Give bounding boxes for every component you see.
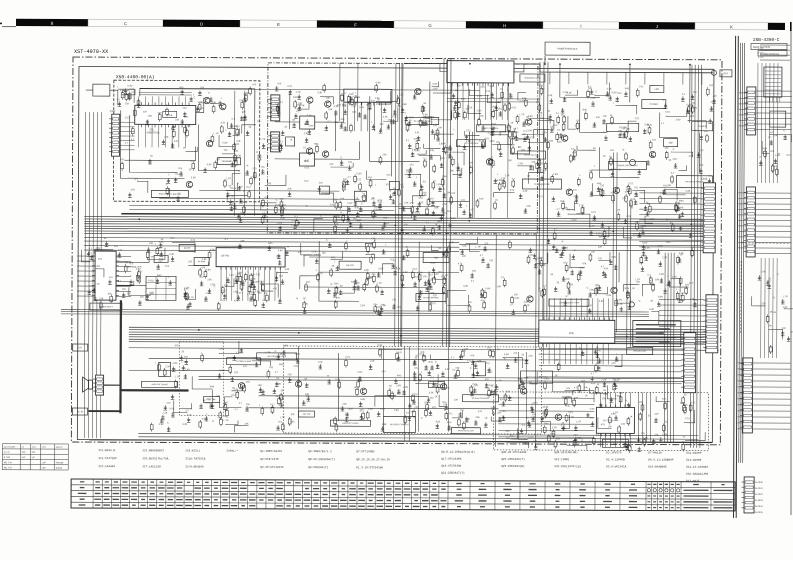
RC cluster below IC6: [544, 346, 622, 406]
svg-text:22K: 22K: [566, 396, 571, 399]
svg-text:IC9:KC5LL: IC9:KC5LL: [185, 449, 200, 452]
top right wiring 7: [580, 102, 607, 132]
svg-text:0.8V: 0.8V: [359, 106, 364, 109]
svg-text:C: C: [470, 367, 472, 370]
svg-text:47K: 47K: [236, 140, 241, 143]
if amp label box: [227, 358, 261, 365]
svg-text:0.01: 0.01: [488, 370, 493, 373]
bus junction dots upper: [138, 218, 692, 232]
svg-text:220: 220: [608, 425, 613, 428]
svg-text:R: R: [296, 297, 298, 300]
second sheet right edge line: [790, 31, 792, 515]
lower transformer box: [159, 362, 171, 376]
svg-text:1K: 1K: [630, 415, 633, 418]
top right wiring 10: [699, 133, 701, 173]
svg-text:0.01: 0.01: [685, 417, 690, 420]
connector CN5 upper: [268, 95, 280, 121]
svg-text:C12: C12: [510, 189, 515, 192]
PLL top wire row: [139, 92, 192, 95]
second sheet bottom connector: [742, 477, 755, 513]
svg-text:R45: R45: [268, 242, 273, 245]
svg-text:220: 220: [188, 260, 193, 263]
svg-text:47K: 47K: [614, 190, 619, 193]
top right wiring 4: [468, 132, 470, 217]
node circle right: [711, 70, 716, 75]
svg-text:10u: 10u: [178, 167, 183, 170]
semiconductor reference list: [98, 448, 708, 483]
svg-text:100: 100: [348, 161, 353, 164]
svg-text:AD HOUSE: AD HOUSE: [4, 446, 16, 449]
svg-text:3.3K: 3.3K: [643, 437, 648, 440]
IC2 lower wire row: [447, 99, 540, 102]
svg-text:1K: 1K: [603, 155, 606, 158]
fm detector box: [518, 151, 546, 159]
frequency range table: [146, 276, 176, 300]
svg-text:2.8V: 2.8V: [185, 368, 190, 371]
svg-text:0.8V: 0.8V: [357, 172, 362, 175]
svg-text:100: 100: [709, 84, 714, 87]
svg-text:100: 100: [257, 292, 262, 295]
svg-text:25B-4390-C: 25B-4390-C: [753, 38, 780, 43]
svg-text:R45: R45: [493, 106, 498, 109]
svg-text:TEMPERATURE: TEMPERATURE: [534, 183, 550, 186]
main data bus (upper): [84, 217, 705, 237]
transistor Q11: [561, 135, 567, 141]
svg-text:R45: R45: [409, 116, 414, 119]
svg-text:470: 470: [269, 366, 274, 369]
svg-text:L.TP: L.TP: [576, 420, 581, 423]
second sheet edge stubs mid: [738, 193, 746, 248]
top right wiring 8: [599, 147, 639, 177]
sd gb control box: [416, 293, 446, 301]
RC cluster center band: [296, 237, 454, 316]
svg-text:220: 220: [216, 395, 221, 398]
svg-text:47K: 47K: [413, 138, 418, 141]
svg-text:B: B: [51, 21, 54, 26]
svg-text:47K: 47K: [411, 399, 416, 402]
svg-text:0.8V: 0.8V: [283, 344, 288, 347]
RC cluster temp comp area: [547, 189, 697, 246]
svg-text:47K: 47K: [445, 387, 450, 390]
svg-text:0.01: 0.01: [221, 121, 226, 124]
svg-text:2.8V: 2.8V: [206, 268, 211, 271]
svg-text:220: 220: [484, 242, 489, 245]
svg-text:0.8V: 0.8V: [207, 163, 212, 166]
svg-text:B-4933: B-4933: [755, 499, 763, 502]
film edge ruler bar with grid letters B-K: [16, 19, 785, 30]
power wire bend: [104, 384, 121, 386]
svg-text:22K: 22K: [125, 102, 130, 105]
RC cluster mid band extra: [81, 237, 468, 314]
mixer box 2 (+K): [300, 153, 315, 166]
svg-text:100: 100: [650, 218, 655, 221]
center box 2: [339, 261, 361, 269]
svg-text:IC2:TA7758P: IC2:TA7758P: [98, 457, 117, 460]
inner frame lower rule: [89, 440, 712, 443]
svg-text:1K: 1K: [150, 155, 153, 158]
svg-text:R45: R45: [679, 200, 684, 203]
svg-text:22K: 22K: [370, 360, 375, 363]
svg-text:2.8V: 2.8V: [599, 300, 604, 303]
tuning block boundary: [283, 346, 541, 434]
RC cluster between modules: [226, 83, 287, 224]
svg-text:3.3K: 3.3K: [429, 391, 434, 394]
sd gain control box: [462, 395, 498, 402]
transistor Q20: [440, 383, 446, 389]
svg-text:10u: 10u: [336, 216, 341, 219]
svg-text:22K: 22K: [404, 202, 409, 205]
svg-text:1K: 1K: [485, 417, 488, 420]
svg-text:C12: C12: [304, 180, 309, 183]
svg-text:2.2K: 2.2K: [596, 232, 601, 235]
svg-text:C: C: [587, 287, 589, 290]
svg-text:47K: 47K: [531, 161, 536, 164]
svg-text:0.8V: 0.8V: [617, 298, 622, 301]
svg-text:10K: 10K: [434, 206, 439, 209]
svg-text:C/H: C/H: [32, 447, 36, 449]
svg-text:10u: 10u: [246, 403, 251, 406]
svg-text:Q2D.24:UTC1240K: Q2D.24:UTC1240K: [501, 451, 527, 454]
svg-text:100: 100: [472, 270, 477, 273]
svg-text:2.8V: 2.8V: [528, 254, 533, 257]
power sw box: [664, 139, 678, 147]
svg-text:470: 470: [589, 417, 594, 420]
svg-text:R: R: [372, 197, 374, 200]
svg-text:R: R: [574, 249, 576, 252]
svg-text:2.8V: 2.8V: [518, 162, 523, 165]
svg-text:10u: 10u: [278, 420, 283, 423]
X58 wiring top: [140, 88, 255, 121]
speaker connector: [93, 375, 104, 395]
svg-text:IC10:TA75558: IC10:TA75558: [185, 457, 205, 460]
svg-text:D8.9.11:1SWB09P: D8.9.11:1SWB09P: [648, 459, 674, 462]
svg-text:C12: C12: [184, 116, 189, 119]
vertical trunk J: [418, 242, 449, 432]
svg-text:10K: 10K: [462, 245, 467, 248]
transistor Q9: [415, 88, 421, 94]
svg-text:10u: 10u: [563, 261, 568, 264]
svg-text:SD GAIN CONTROL: SD GAIN CONTROL: [472, 397, 490, 400]
svg-text:2.8V: 2.8V: [296, 103, 301, 106]
sheet label box 1: [751, 44, 787, 50]
svg-text:C: C: [579, 347, 581, 350]
svg-text:C: C: [208, 91, 210, 94]
svg-text:0.8V: 0.8V: [378, 267, 383, 270]
second sheet header box pins: [766, 97, 780, 102]
low-frequency amp box: [549, 299, 589, 306]
X58 wiring buffer: [151, 188, 169, 197]
svg-text:10K: 10K: [148, 115, 153, 118]
svg-text:2.8V: 2.8V: [590, 408, 595, 411]
svg-text:100: 100: [279, 275, 284, 278]
mid band link wire 1: [309, 256, 449, 259]
svg-text:UPC CONTROL: UPC CONTROL: [464, 143, 479, 145]
svg-text:47K: 47K: [596, 116, 601, 119]
svg-text:47K: 47K: [131, 189, 136, 192]
svg-text:QL7:UTC164MK: QL7:UTC164MK: [441, 458, 461, 461]
svg-text:D1.3.10:DTC5438K: D1.3.10:DTC5438K: [356, 466, 383, 469]
svg-text:B-4930: B-4930: [755, 481, 763, 484]
svg-text:0.8V: 0.8V: [348, 202, 353, 205]
svg-text:22K: 22K: [565, 278, 570, 281]
svg-text:S21:(SWR): S21:(SWR): [554, 457, 569, 461]
svg-text:100: 100: [664, 147, 669, 150]
svg-text:47K: 47K: [231, 202, 236, 205]
power module box: [545, 42, 590, 55]
lpf box: [650, 86, 664, 93]
set sw box 1: [203, 397, 219, 403]
svg-text:0.01: 0.01: [345, 356, 350, 359]
svg-text:B TKB: B TKB: [4, 457, 11, 459]
tuner wiring 3: [289, 91, 291, 129]
CN1 to PLL wires: [120, 122, 135, 150]
svg-text:220: 220: [454, 398, 459, 401]
svg-text:1K: 1K: [438, 247, 441, 250]
svg-text:2.2K: 2.2K: [590, 225, 595, 228]
svg-text:FREQ: FREQ: [148, 280, 154, 282]
svg-text:470: 470: [770, 131, 775, 134]
svg-text:22K: 22K: [234, 371, 239, 374]
svg-text:22K: 22K: [476, 416, 481, 419]
svg-text:0.8V: 0.8V: [611, 256, 616, 259]
bottom connector drops: [638, 392, 650, 442]
svg-text:220: 220: [713, 95, 718, 98]
temperature compensation box: [522, 179, 561, 189]
svg-text:100: 100: [368, 276, 373, 279]
svg-text:10K: 10K: [621, 423, 626, 426]
second sheet small box: [770, 111, 786, 127]
lower wiring 7: [248, 408, 498, 409]
svg-text:D12:W160P: D12:W160P: [686, 452, 701, 455]
svg-text:DC IN: DC IN: [77, 411, 83, 413]
svg-text:L.TP: L.TP: [280, 416, 285, 419]
svg-text:WVD8: WVD8: [56, 468, 63, 470]
supply rail wire: [405, 62, 540, 65]
svg-text:220: 220: [447, 248, 452, 251]
AF amp box: [194, 258, 209, 266]
IF IC pin drops: [348, 102, 382, 131]
svg-text:IC5:MN6080B7S: IC5:MN6080B7S: [142, 449, 164, 452]
svg-text:220: 220: [464, 348, 469, 351]
svg-text:100: 100: [591, 251, 596, 254]
mid long wire 2: [129, 209, 394, 210]
svg-text:R: R: [256, 151, 258, 154]
svg-text:R: R: [331, 283, 333, 286]
svg-text:R45: R45: [583, 109, 588, 112]
svg-text:470: 470: [410, 202, 415, 205]
svg-text:22K: 22K: [539, 84, 544, 87]
second sheet wires top: [760, 44, 790, 46]
svg-text:220: 220: [489, 259, 494, 262]
svg-text:Q29:2SD1903(B): Q29:2SD1903(B): [501, 464, 525, 468]
svg-text:22K: 22K: [200, 86, 205, 89]
svg-text:POWER: POWER: [698, 126, 707, 128]
main IC IC2: [447, 61, 514, 86]
svg-text:10u: 10u: [663, 184, 668, 187]
svg-text:R: R: [212, 420, 214, 423]
svg-text:10K: 10K: [449, 169, 454, 172]
svg-text:R: R: [623, 149, 625, 152]
power detector box 2: [692, 122, 713, 131]
svg-text:POWER: POWER: [650, 104, 659, 106]
svg-text:MUTE DETECTOR: MUTE DETECTOR: [458, 430, 474, 432]
bottom long vertical 2: [518, 352, 526, 434]
det block boundary: [493, 392, 708, 451]
unreg rectifier box: [90, 303, 122, 310]
svg-text:C12: C12: [256, 273, 261, 276]
svg-text:2.2K: 2.2K: [187, 414, 192, 417]
speaker SP1: [83, 377, 93, 392]
lower band bus: [199, 377, 689, 382]
svg-text:R: R: [238, 170, 240, 173]
svg-text:470: 470: [410, 163, 415, 166]
svg-text:0.01: 0.01: [295, 353, 300, 356]
svg-text:C12: C12: [125, 116, 130, 119]
svg-text:C12: C12: [486, 90, 491, 93]
svg-text:R45: R45: [429, 361, 434, 364]
svg-text:L.TP: L.TP: [417, 272, 422, 275]
svg-text:100: 100: [555, 359, 560, 362]
svg-text:R45: R45: [625, 87, 630, 90]
svg-text:C: C: [167, 422, 169, 425]
svg-text:L.TP: L.TP: [495, 348, 500, 351]
svg-text:LPF: LPF: [655, 88, 660, 91]
svg-text:C12: C12: [206, 398, 211, 401]
svg-text:C12: C12: [689, 282, 694, 285]
svg-text:D2.4:12V06B: D2.4:12V06B: [606, 458, 625, 461]
svg-text:470: 470: [371, 99, 376, 102]
svg-text:3.3K: 3.3K: [649, 308, 654, 311]
svg-text:22K: 22K: [164, 136, 169, 139]
t/s sw box: [607, 123, 639, 131]
svg-text:470: 470: [478, 410, 483, 413]
svg-text:R: R: [291, 139, 293, 142]
mid bus: [61, 309, 649, 316]
mid band top wires left: [84, 241, 459, 252]
svg-text:C12: C12: [442, 212, 447, 215]
svg-text:220: 220: [481, 86, 486, 89]
thick power wire to dc in: [88, 410, 120, 412]
svg-text:22K: 22K: [563, 207, 568, 210]
svg-text:2.2K: 2.2K: [601, 379, 606, 382]
svg-text:0.8V: 0.8V: [662, 433, 667, 436]
svg-text:10u: 10u: [261, 166, 266, 169]
svg-text:R45: R45: [244, 93, 249, 96]
svg-text:L.TP: L.TP: [236, 273, 241, 276]
svg-text:220: 220: [515, 131, 520, 134]
svg-text:3.3K: 3.3K: [317, 91, 322, 94]
svg-text:2.8V: 2.8V: [433, 87, 438, 90]
svg-text:1K: 1K: [331, 265, 334, 268]
svg-text:220: 220: [143, 111, 148, 114]
svg-text:R45: R45: [334, 282, 339, 285]
svg-text:L.TP: L.TP: [247, 293, 252, 296]
svg-text:0.8V: 0.8V: [514, 297, 519, 300]
mid-right wiring 2: [618, 252, 620, 282]
svg-text:C: C: [575, 124, 577, 127]
svg-text:470: 470: [396, 306, 401, 309]
top right wiring 2: [629, 64, 631, 102]
svg-text:1K: 1K: [354, 386, 357, 389]
lower wiring 2: [259, 395, 429, 398]
svg-text:D15:SEA2A1JPB: D15:SEA2A1JPB: [686, 473, 708, 476]
svg-text:47K: 47K: [582, 262, 587, 265]
transistor Q16: [611, 287, 617, 293]
vertical trunk E: [495, 235, 536, 447]
CN6 fan-out wires: [539, 337, 682, 383]
svg-text:47K: 47K: [548, 94, 553, 97]
svg-text:L.TP: L.TP: [224, 419, 229, 422]
svg-text:1K: 1K: [495, 199, 498, 202]
tuner wiring 4: [335, 111, 337, 151]
second sheet edge stubs lower: [737, 363, 742, 429]
svg-text:2.8V: 2.8V: [308, 125, 313, 128]
svg-text:220: 220: [443, 403, 448, 406]
bus junction dots lower: [198, 329, 628, 340]
am frequency amp box: [257, 353, 297, 360]
svg-text:1K: 1K: [455, 89, 458, 92]
svg-text:10u: 10u: [584, 386, 589, 389]
svg-text:R: R: [287, 246, 289, 249]
svg-text:10K: 10K: [126, 89, 131, 92]
svg-text:3.3K: 3.3K: [445, 368, 450, 371]
svg-text:3.3K: 3.3K: [463, 285, 468, 288]
svg-text:X58-4460-00(A): X58-4460-00(A): [116, 74, 155, 80]
svg-text:2.8V: 2.8V: [172, 362, 177, 365]
svg-text:220: 220: [306, 281, 311, 284]
svg-text:R: R: [562, 240, 564, 243]
svg-text:0.8V: 0.8V: [394, 409, 399, 412]
svg-text:4-107: 4-107: [758, 57, 764, 59]
svg-text:47K: 47K: [597, 349, 602, 352]
svg-text:⊕K: ⊕K: [304, 159, 310, 163]
svg-text:2.2K: 2.2K: [184, 286, 189, 289]
svg-text:0.8V: 0.8V: [485, 287, 490, 290]
svg-text:Q25:2SD1460(T): Q25:2SD1460(T): [501, 457, 525, 461]
X58 wiring loop 1: [120, 110, 184, 178]
svg-text:L.TP: L.TP: [175, 375, 180, 378]
svg-text:IC1:BX96.B: IC1:BX96.B: [98, 449, 115, 452]
svg-text:100: 100: [422, 116, 427, 119]
svg-text:220: 220: [158, 260, 163, 263]
svg-text:R: R: [445, 284, 447, 287]
svg-text:2.8V: 2.8V: [403, 386, 408, 389]
AF PA IC IC3: [216, 248, 285, 270]
svg-text:L.TP: L.TP: [528, 436, 533, 439]
svg-text:0.01: 0.01: [171, 389, 176, 392]
CN3 fan-out wires: [639, 187, 701, 247]
svg-text:3.3K: 3.3K: [527, 129, 532, 132]
second sheet vertical bundle 2: [761, 258, 777, 358]
svg-text:10u: 10u: [498, 107, 503, 110]
svg-text:470: 470: [252, 83, 257, 86]
svg-text:C: C: [275, 350, 277, 353]
svg-text:2.8V: 2.8V: [136, 268, 141, 271]
svg-text:2.2K: 2.2K: [296, 91, 301, 94]
svg-text:AF PA: AF PA: [221, 254, 229, 258]
svg-text:L.TP: L.TP: [260, 138, 265, 141]
rf line buffer box: [406, 117, 439, 124]
svg-text:10u: 10u: [639, 85, 644, 88]
svg-text:470: 470: [398, 351, 403, 354]
svg-text:R45: R45: [210, 385, 215, 388]
svg-text:IC3:LA4440: IC3:LA4440: [98, 465, 115, 468]
svg-text:10u: 10u: [373, 303, 378, 306]
svg-text:3.3K: 3.3K: [382, 423, 387, 426]
svg-text:PLL: PLL: [167, 113, 173, 117]
svg-text:47K: 47K: [601, 423, 606, 426]
upc control box 2: [457, 140, 486, 147]
